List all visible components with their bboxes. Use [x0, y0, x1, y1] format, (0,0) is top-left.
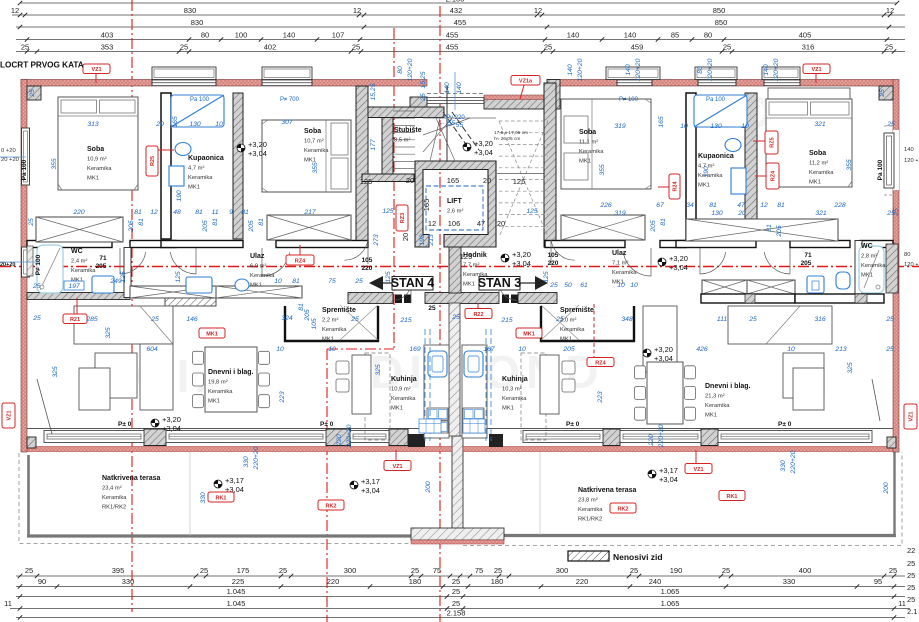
svg-text:25: 25	[29, 89, 36, 98]
svg-text:75: 75	[475, 566, 483, 575]
svg-text:VZ1: VZ1	[7, 410, 13, 420]
svg-text:Natkrivena terasa: Natkrivena terasa	[578, 487, 636, 494]
svg-text:MK1: MK1	[87, 176, 99, 182]
svg-text:25: 25	[544, 43, 552, 52]
svg-text:850: 850	[713, 6, 726, 15]
WC niche	[27, 246, 33, 276]
svg-text:12: 12	[886, 6, 894, 15]
svg-text:165: 165	[172, 116, 179, 128]
svg-text:+3,04: +3,04	[248, 149, 267, 158]
svg-text:81: 81	[660, 218, 667, 226]
svg-text:355: 355	[51, 158, 58, 170]
svg-text:R24: R24	[673, 181, 679, 192]
top exterior wall	[21, 72, 894, 110]
room labels	[87, 146, 112, 182]
svg-text:81: 81	[195, 209, 203, 216]
svg-text:23,4 m²: 23,4 m²	[102, 486, 122, 492]
bold door dims	[96, 252, 812, 312]
svg-text:50: 50	[564, 282, 572, 289]
svg-text:355: 355	[312, 162, 319, 174]
svg-text:25: 25	[885, 346, 894, 353]
svg-text:180: 180	[491, 577, 504, 586]
svg-text:830: 830	[191, 18, 204, 27]
svg-text:200: 200	[425, 481, 432, 494]
svg-text:220+20: 220+20	[253, 446, 260, 470]
svg-text:Keramika: Keramika	[579, 149, 604, 155]
svg-text:80: 80	[397, 66, 404, 74]
bed Soba3	[561, 99, 651, 189]
svg-text:P± 0: P± 0	[320, 421, 334, 428]
svg-text:120+20: 120+20	[773, 58, 780, 81]
svg-text:220: 220	[548, 260, 559, 267]
svg-text:353: 353	[101, 43, 114, 52]
svg-text:330: 330	[783, 577, 796, 586]
svg-text:2.1: 2.1	[907, 607, 917, 616]
svg-text:220: 220	[327, 577, 340, 586]
bed Soba4	[768, 88, 850, 99]
svg-text:223: 223	[597, 391, 604, 404]
svg-text:RZ5: RZ5	[770, 137, 776, 147]
svg-text:MK1: MK1	[705, 413, 717, 419]
svg-text:1.065: 1.065	[661, 587, 680, 596]
svg-text:MK1: MK1	[391, 406, 403, 412]
svg-text:125: 125	[382, 208, 394, 215]
svg-text:10,3 m²: 10,3 m²	[502, 387, 522, 393]
svg-text:MK1: MK1	[861, 273, 873, 279]
svg-text:Keramika: Keramika	[705, 403, 730, 409]
svg-text:MK1: MK1	[579, 159, 591, 165]
svg-text:455: 455	[454, 18, 467, 27]
svg-text:81: 81	[134, 209, 142, 216]
svg-text:WC: WC	[861, 243, 873, 250]
svg-text:130: 130	[711, 210, 723, 217]
svg-text:25: 25	[21, 43, 29, 52]
red label boxes	[77, 73, 816, 464]
svg-text:197: 197	[68, 283, 80, 290]
svg-text:25: 25	[885, 316, 894, 323]
svg-text:25: 25	[350, 316, 359, 323]
legend nenosivi zid	[568, 551, 663, 562]
svg-text:217: 217	[303, 209, 316, 216]
svg-text:MK1: MK1	[463, 282, 475, 288]
svg-text:RK1/RK2: RK1/RK2	[102, 505, 126, 511]
svg-text:81: 81	[292, 278, 300, 285]
svg-text:25: 25	[428, 305, 436, 312]
svg-text:Keramika: Keramika	[861, 263, 886, 269]
svg-text:215: 215	[500, 317, 513, 324]
svg-text:165: 165	[447, 176, 460, 185]
svg-text:Dnevni i blag.: Dnevni i blag.	[705, 383, 751, 390]
svg-text:11: 11	[898, 599, 906, 608]
svg-text:95: 95	[874, 577, 882, 586]
svg-text:23,8 m²: 23,8 m²	[578, 498, 598, 504]
svg-text:RK1: RK1	[726, 494, 737, 500]
svg-text:P± 0: P± 0	[118, 421, 132, 428]
svg-text:Spremište: Spremište	[322, 307, 356, 314]
svg-text:10,9 m²: 10,9 m²	[391, 387, 411, 393]
svg-text:105: 105	[311, 318, 318, 330]
svg-text:81: 81	[777, 202, 785, 209]
svg-text:Dnevni i blag.: Dnevni i blag.	[208, 369, 254, 376]
svg-text:Keramika: Keramika	[578, 507, 603, 513]
svg-text:STAN 3: STAN 3	[478, 276, 522, 290]
svg-text:VZ1: VZ1	[811, 67, 821, 73]
svg-text:P≠ 100: P≠ 100	[35, 254, 42, 275]
svg-text:330: 330	[780, 460, 787, 472]
svg-text:111: 111	[717, 316, 728, 323]
svg-text:R25: R25	[150, 156, 156, 166]
STAN 3 label	[478, 276, 548, 290]
svg-text:RK1: RK1	[215, 495, 226, 501]
svg-text:20: 20	[401, 233, 410, 241]
svg-text:165: 165	[422, 199, 431, 212]
svg-text:125: 125	[360, 177, 373, 186]
svg-text:20: 20	[497, 219, 505, 228]
svg-text:Keramika: Keramika	[87, 166, 112, 172]
corner blocks	[27, 86, 41, 100]
svg-text:10: 10	[276, 346, 284, 353]
svg-text:81: 81	[709, 202, 717, 209]
svg-text:Kuhinja: Kuhinja	[391, 376, 417, 383]
svg-text:220: 220	[336, 434, 343, 447]
bottom dimension chain rows	[4, 566, 910, 620]
svg-text:RZ3: RZ3	[400, 213, 406, 223]
svg-text:25: 25	[555, 316, 564, 323]
svg-text:205: 205	[562, 346, 575, 353]
svg-text:VZ1: VZ1	[91, 67, 101, 73]
svg-text:220: 220	[648, 434, 655, 447]
svg-text:455: 455	[446, 31, 459, 40]
svg-text:106: 106	[448, 219, 461, 228]
svg-text:11,2 m²: 11,2 m²	[809, 161, 828, 167]
svg-text:205: 205	[801, 260, 812, 267]
svg-text:2.158: 2.158	[447, 609, 466, 618]
svg-text:+3,20: +3,20	[512, 250, 531, 259]
svg-text:205: 205	[248, 220, 255, 233]
svg-text:MK1: MK1	[208, 399, 220, 405]
svg-text:2,4 m²: 2,4 m²	[71, 259, 87, 265]
svg-text:+3,04: +3,04	[659, 475, 678, 484]
svg-text:81: 81	[138, 218, 145, 226]
svg-text:h≈ 26,05 cm: h≈ 26,05 cm	[494, 136, 520, 142]
svg-text:319: 319	[614, 210, 626, 217]
svg-text:321: 321	[814, 121, 826, 128]
svg-text:Keramika: Keramika	[322, 327, 347, 333]
svg-text:10: 10	[617, 282, 625, 289]
svg-text:9: 9	[229, 209, 233, 216]
svg-text:316: 316	[814, 316, 826, 323]
svg-text:RK1/RK2: RK1/RK2	[578, 517, 602, 523]
svg-text:10: 10	[215, 121, 223, 128]
svg-text:355: 355	[599, 164, 606, 176]
svg-text:1.045: 1.045	[227, 599, 246, 608]
svg-text:25: 25	[907, 583, 915, 592]
svg-text:20 +20: 20 +20	[1, 157, 19, 163]
svg-text:Keramika: Keramika	[304, 148, 329, 154]
svg-text:90: 90	[38, 577, 46, 586]
svg-text:RZ4: RZ4	[295, 258, 306, 264]
svg-text:+3,17: +3,17	[225, 476, 244, 485]
svg-text:190: 190	[703, 166, 710, 178]
svg-text:213: 213	[834, 346, 847, 353]
svg-text:167: 167	[483, 346, 495, 353]
svg-text:WC: WC	[71, 248, 83, 255]
svg-text:MK1: MK1	[250, 283, 262, 289]
svg-text:10: 10	[680, 123, 688, 130]
svg-text:80: 80	[697, 66, 704, 74]
svg-text:190: 190	[176, 190, 183, 202]
svg-text:2,6 m²: 2,6 m²	[447, 209, 463, 215]
svg-text:VZ1: VZ1	[909, 411, 915, 421]
svg-text:R21: R21	[70, 317, 80, 323]
svg-text:80: 80	[201, 31, 209, 40]
svg-text:140: 140	[624, 31, 637, 40]
svg-text:15,25: 15,25	[420, 71, 427, 88]
svg-text:25: 25	[279, 566, 287, 575]
svg-text:25: 25	[907, 571, 915, 580]
left kitchen	[336, 345, 449, 440]
svg-text:120+20: 120+20	[407, 58, 414, 81]
svg-text:Soba: Soba	[87, 146, 104, 153]
svg-text:319: 319	[614, 123, 626, 130]
svg-text:Keramika: Keramika	[560, 327, 585, 333]
svg-text:2,8 m²: 2,8 m²	[861, 254, 877, 260]
svg-text:226: 226	[599, 202, 612, 209]
svg-text:105: 105	[548, 252, 559, 259]
left terrace slab	[19, 451, 452, 544]
wardrobes	[36, 217, 123, 242]
svg-text:+3,04: +3,04	[654, 354, 673, 363]
blue window labels	[190, 97, 726, 103]
svg-text:205: 205	[128, 220, 135, 233]
svg-text:205: 205	[202, 220, 209, 233]
svg-text:81: 81	[766, 224, 773, 232]
svg-text:10,7 m²: 10,7 m²	[304, 139, 324, 145]
svg-text:+3,17: +3,17	[361, 477, 380, 486]
svg-text:Nenosivi zid: Nenosivi zid	[613, 552, 663, 562]
svg-text:+3,17: +3,17	[659, 466, 678, 475]
svg-text:300: 300	[556, 566, 569, 575]
svg-text:325: 325	[105, 327, 112, 339]
svg-text:25: 25	[352, 43, 360, 52]
lift shaft	[415, 161, 496, 247]
svg-text:12: 12	[11, 6, 19, 15]
svg-text:12: 12	[353, 6, 361, 15]
svg-text:140: 140	[283, 31, 296, 40]
svg-text:205: 205	[650, 220, 657, 233]
svg-text:71: 71	[804, 252, 812, 259]
svg-text:MK1: MK1	[523, 331, 535, 337]
svg-text:11,1 m²: 11,1 m²	[579, 140, 598, 146]
svg-text:25: 25	[722, 566, 730, 575]
svg-text:MK1: MK1	[322, 337, 334, 343]
svg-text:6,9 m²: 6,9 m²	[250, 264, 266, 270]
svg-text:120 +: 120 +	[904, 158, 919, 164]
svg-text:140: 140	[763, 64, 770, 76]
svg-text:10: 10	[741, 123, 749, 130]
svg-text:Keramika: Keramika	[391, 396, 416, 402]
svg-text:MK1: MK1	[809, 180, 821, 186]
svg-text:Ulaz: Ulaz	[612, 250, 627, 257]
svg-text:Soba: Soba	[304, 128, 321, 135]
svg-text:205: 205	[96, 263, 107, 270]
svg-text:Pa 100: Pa 100	[190, 97, 210, 103]
svg-text:205: 205	[776, 225, 783, 238]
svg-text:215: 215	[399, 317, 412, 324]
svg-text:325: 325	[375, 364, 382, 376]
svg-text:P≠ 100: P≠ 100	[619, 97, 639, 103]
svg-text:120 +20: 120 +20	[904, 262, 919, 268]
svg-text:25: 25	[886, 210, 895, 217]
svg-text:25: 25	[180, 43, 188, 52]
svg-text:100: 100	[235, 31, 248, 40]
svg-text:25: 25	[452, 577, 460, 586]
Kupaonica1 fixtures	[169, 95, 224, 186]
blue dimension numbers	[32, 119, 895, 353]
svg-text:+3,20: +3,20	[248, 140, 267, 149]
svg-text:25: 25	[630, 566, 638, 575]
svg-text:120+20: 120+20	[577, 58, 584, 81]
svg-text:459: 459	[631, 43, 644, 52]
svg-text:25: 25	[452, 587, 460, 596]
svg-text:25: 25	[25, 566, 33, 575]
svg-text:34: 34	[686, 202, 694, 209]
svg-text:25: 25	[200, 566, 208, 575]
svg-text:105: 105	[362, 257, 373, 264]
svg-text:25: 25	[494, 566, 502, 575]
WC left fixtures	[37, 245, 63, 293]
svg-text:25: 25	[451, 314, 460, 321]
svg-text:22: 22	[907, 546, 915, 555]
svg-text:146: 146	[186, 316, 198, 323]
svg-text:11: 11	[4, 599, 12, 608]
svg-text:177: 177	[370, 139, 377, 151]
svg-text:Stubište: Stubište	[394, 127, 422, 134]
svg-text:165: 165	[658, 116, 665, 128]
svg-text:455: 455	[446, 43, 459, 52]
svg-text:+3,20: +3,20	[669, 254, 688, 263]
svg-text:11: 11	[211, 209, 218, 216]
stairwell treads	[393, 111, 415, 169]
left living furniture	[74, 306, 173, 410]
svg-text:348: 348	[621, 316, 633, 323]
svg-text:RZ4: RZ4	[771, 170, 777, 181]
svg-text:Keramika: Keramika	[188, 175, 213, 181]
svg-text:61: 61	[580, 282, 588, 289]
level markers	[237, 140, 267, 158]
svg-text:8,5 m²: 8,5 m²	[394, 138, 410, 144]
svg-text:405: 405	[799, 31, 812, 40]
svg-text:MK1: MK1	[188, 185, 200, 191]
door arcs	[120, 240, 790, 303]
svg-text:20+20: 20+20	[0, 262, 15, 268]
bottom facade window band	[23, 429, 896, 452]
svg-text:140: 140	[444, 82, 451, 94]
svg-text:120+20: 120+20	[635, 58, 642, 81]
svg-text:402: 402	[264, 43, 277, 52]
svg-text:10: 10	[518, 346, 526, 353]
svg-text:205: 205	[304, 309, 311, 322]
svg-text:25: 25	[32, 315, 41, 322]
svg-text:313: 313	[87, 121, 99, 128]
svg-text:325: 325	[847, 362, 854, 374]
svg-text:47: 47	[737, 202, 745, 209]
svg-text:12: 12	[760, 202, 768, 209]
svg-text:48: 48	[173, 209, 181, 216]
svg-text:125: 125	[543, 271, 550, 283]
svg-text:2,2 m²: 2,2 m²	[322, 318, 338, 324]
right exterior wall	[877, 80, 919, 453]
svg-text:125: 125	[460, 252, 473, 261]
svg-text:12: 12	[534, 6, 542, 15]
svg-text:25: 25	[907, 559, 915, 568]
svg-text:Keramika: Keramika	[102, 495, 127, 501]
svg-text:324: 324	[281, 315, 293, 322]
svg-text:25: 25	[723, 43, 731, 52]
svg-text:80: 80	[904, 252, 910, 258]
svg-text:Keramika: Keramika	[208, 389, 233, 395]
svg-text:80: 80	[704, 31, 712, 40]
svg-text:+3,04: +3,04	[162, 424, 181, 433]
svg-text:395: 395	[112, 566, 125, 575]
svg-text:25: 25	[886, 121, 895, 128]
svg-text:125: 125	[175, 271, 182, 283]
svg-text:107: 107	[332, 31, 345, 40]
svg-text:15,25: 15,25	[370, 83, 377, 100]
svg-text:STAN 4: STAN 4	[391, 276, 435, 290]
svg-text:Keramika: Keramika	[250, 273, 275, 279]
svg-text:Pa 100: Pa 100	[877, 159, 884, 180]
svg-text:240: 240	[649, 577, 662, 586]
svg-text:125: 125	[120, 271, 127, 283]
svg-text:426: 426	[696, 346, 708, 353]
svg-text:47: 47	[477, 219, 485, 228]
svg-text:125: 125	[526, 208, 538, 215]
svg-text:71: 71	[99, 255, 107, 262]
svg-text:1.065: 1.065	[661, 599, 680, 608]
svg-text:180: 180	[409, 577, 422, 586]
WC right fixtures	[859, 246, 884, 293]
right hall south wall	[701, 294, 795, 303]
svg-text:81: 81	[241, 209, 249, 216]
svg-text:LOCRT PRVOG KATA: LOCRT PRVOG KATA	[0, 61, 84, 70]
svg-text:+3,04: +3,04	[669, 263, 688, 272]
svg-text:81: 81	[258, 218, 265, 226]
svg-text:RK2: RK2	[325, 503, 336, 509]
top dimension chain rows	[11, 0, 905, 54]
svg-text:1.045: 1.045	[227, 587, 246, 596]
svg-text:403: 403	[101, 31, 114, 40]
svg-text:130: 130	[189, 121, 201, 128]
svg-text:← 55: ← 55	[439, 120, 455, 127]
svg-text:Spremište: Spremište	[560, 307, 594, 314]
svg-text:228: 228	[833, 202, 846, 209]
svg-text:20: 20	[406, 176, 414, 185]
svg-text:21,3 m²: 21,3 m²	[705, 394, 725, 400]
svg-text:198: 198	[419, 234, 426, 246]
svg-text:10: 10	[787, 346, 795, 353]
svg-text:Keramika: Keramika	[698, 173, 723, 179]
STAN 4 label	[369, 276, 434, 290]
svg-text:Kuhinja: Kuhinja	[502, 376, 528, 383]
svg-text:125: 125	[385, 271, 392, 283]
svg-text:MK1: MK1	[206, 331, 218, 337]
svg-text:140: 140	[625, 64, 632, 76]
svg-text:P± 0: P± 0	[566, 421, 580, 428]
svg-text:330: 330	[200, 492, 207, 504]
svg-text:190: 190	[670, 566, 683, 575]
svg-text:140: 140	[904, 147, 914, 153]
